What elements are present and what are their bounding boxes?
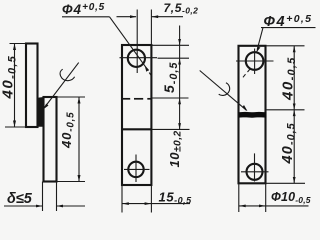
top hole (front) (128, 50, 145, 67)
label shelf (62, 16, 110, 18)
leader dashed overshoot (right) (248, 69, 251, 72)
plate outline (front) (122, 45, 151, 185)
plate outline (right view) (239, 46, 266, 184)
weld seam band (239, 112, 267, 118)
dimension line 40-0,5 x2 (right) (293, 46, 295, 184)
bottom hole centerlines (124, 168, 150, 170)
extension: joint line right (152, 128, 190, 130)
weld leader (right view) (200, 71, 247, 111)
dimension line 5-0,5 and 10+-0,2 (179, 26, 181, 130)
extension line bottom of top plate (5, 126, 26, 128)
dimension line 40-0.5 left (14, 44, 16, 128)
dimension 15-0,5 extension lines (121, 185, 123, 213)
solid joint line (122, 128, 151, 130)
leader to right top hole (257, 28, 263, 50)
dimension 7.5-0.2 (117, 16, 137, 18)
extension: hole center right (158, 57, 190, 59)
top hole centerlines (120, 57, 158, 59)
dimension line 40-0.5 right of bottom plate (78, 97, 80, 182)
dim text 10+-0,2 (rotated) (167, 130, 183, 167)
top hole centerlines (236, 60, 274, 62)
weld fill between plates (38, 97, 44, 127)
weld symbol arc (right view) (219, 83, 230, 96)
extension: dashed line right (152, 97, 189, 99)
top plate (side view) (26, 44, 38, 128)
dim text 40-0.5 (bottom plate, rotated) (59, 112, 76, 149)
hidden dashed line (123, 98, 130, 100)
weld leader (left view) (45, 63, 79, 108)
dim text 40-0.5 (left, rotated) (0, 55, 18, 99)
dim text 40-0,5 top (rotated) (280, 57, 299, 101)
extension lines right side (266, 45, 305, 47)
extension line top left (10, 43, 27, 45)
label shelf (right) (261, 27, 316, 29)
extension line right bottom of bottom plate (57, 181, 86, 183)
bottom hole (front) (128, 162, 143, 177)
bottom plate (side view) (44, 97, 57, 182)
dimension line 15-0,5 (122, 203, 190, 205)
svg-text:δ≤5: δ≤5 (7, 191, 33, 207)
extension line right top of bottom plate (57, 96, 86, 98)
dim text 40-0,5 bottom (rotated) (280, 122, 298, 164)
dim text 5-0,5 (rotated) (161, 62, 180, 93)
dimension line F10-0,5 (239, 205, 309, 207)
leader dashed overshoot (149, 73, 151, 76)
delta dimension arrows (4, 205, 43, 207)
extension line plate right edge up (150, 10, 152, 45)
bottom hole centerlines (241, 171, 269, 173)
top hole (right view) (246, 52, 264, 70)
delta extension lines (42, 182, 44, 212)
weld symbol arc (left view) (60, 69, 75, 81)
bottom hole (right view) (247, 164, 263, 180)
leader to top hole (110, 17, 149, 71)
extension: plate top edge right (151, 44, 189, 46)
F10 extension lines (238, 183, 240, 212)
